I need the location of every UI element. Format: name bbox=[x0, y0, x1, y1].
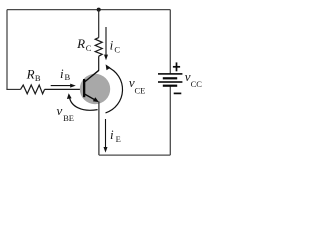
wire base lead left of RB bbox=[6, 88, 20, 90]
svg-text:C: C bbox=[114, 45, 120, 55]
wire base lead RB to transistor bbox=[45, 88, 84, 90]
wire emitter vertical bbox=[98, 102, 100, 156]
wire bottom rail bbox=[99, 154, 170, 156]
transistor Q1 collector lead bbox=[85, 70, 100, 82]
node top junction dot bbox=[97, 8, 101, 12]
voltage arc vBE bbox=[67, 93, 98, 110]
wire collector branch upper bbox=[98, 10, 100, 38]
battery minus sign bbox=[174, 92, 182, 94]
svg-text:C: C bbox=[86, 43, 92, 53]
resistor RC bbox=[95, 38, 102, 57]
battery VCC plate 3 long bbox=[158, 81, 182, 83]
wire right vertical upper bbox=[169, 10, 171, 74]
svg-text:B: B bbox=[65, 72, 71, 82]
svg-text:B: B bbox=[35, 73, 41, 83]
svg-text:v: v bbox=[57, 103, 63, 118]
svg-text:CE: CE bbox=[135, 85, 146, 95]
battery VCC plate 4 short bbox=[163, 85, 177, 87]
svg-text:R: R bbox=[26, 67, 35, 82]
svg-text:i: i bbox=[110, 37, 114, 52]
current arrow iB bbox=[51, 84, 76, 88]
wire right vertical lower bbox=[169, 86, 171, 155]
current arrow iC bbox=[104, 27, 108, 60]
wire left vertical bbox=[6, 10, 8, 90]
battery plus sign bbox=[173, 62, 180, 71]
svg-text:i: i bbox=[110, 127, 114, 142]
svg-text:BE: BE bbox=[63, 113, 74, 123]
transistor Q1 emitter lead with arrow bbox=[85, 94, 99, 102]
battery VCC plate 2 short bbox=[163, 77, 177, 79]
resistor RB bbox=[21, 85, 45, 94]
transistor Q1 base bar bbox=[83, 79, 85, 97]
battery VCC plate 1 long bbox=[158, 73, 182, 75]
svg-text:i: i bbox=[60, 66, 64, 81]
svg-text:E: E bbox=[116, 134, 121, 144]
wire collector lead below RC bbox=[98, 56, 100, 70]
wire top rail bbox=[7, 9, 170, 11]
current arrow iE bbox=[104, 119, 108, 153]
voltage arc vCE bbox=[106, 64, 123, 113]
svg-text:R: R bbox=[76, 36, 85, 51]
transistor Q1 body circle bbox=[80, 74, 110, 104]
svg-text:CC: CC bbox=[191, 79, 203, 89]
